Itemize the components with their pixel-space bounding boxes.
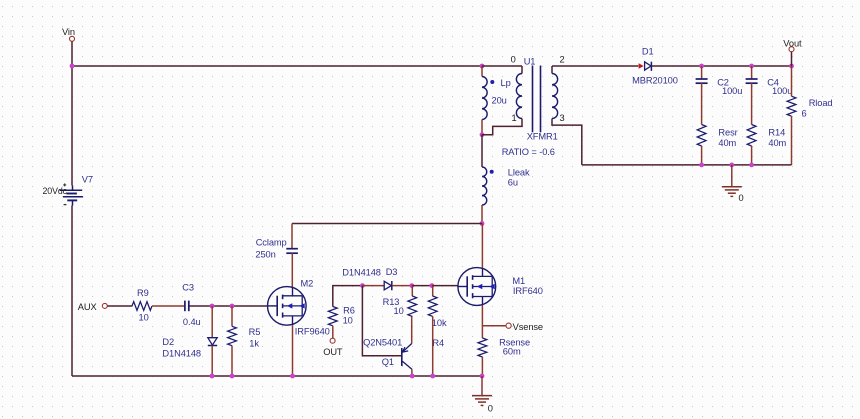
svg-text:6: 6 [802,109,807,119]
wire R13 bottom [411,316,413,343]
wire xfmr pin0 top [482,65,522,67]
capacitor C2 100u [696,78,708,80]
svg-text:D1N4148: D1N4148 [162,349,201,359]
svg-text:0: 0 [739,193,744,203]
wire top rail [72,65,482,67]
svg-text:V7: V7 [82,175,93,185]
svg-text:AUX: AUX [78,302,97,312]
wire R13 top [411,286,413,296]
svg-text:Vin: Vin [62,27,75,37]
svg-text:0: 0 [511,55,516,65]
svg-text:100u: 100u [722,86,742,96]
transformer core bars [532,66,534,133]
resistor R14 40m [747,125,756,147]
svg-text:Resr: Resr [718,127,737,137]
diode D1 MBR20100 [639,63,644,68]
junction top-left [70,64,75,69]
wire Lleak bottom lead [481,205,483,224]
wire R6 top [333,286,363,307]
resistor R6 10 [328,307,337,326]
wire Vin stub [71,42,73,67]
wire Resr bottom [701,146,703,165]
junction R4 node [430,283,435,288]
node AUX terminal [102,303,107,308]
svg-text:IRF9640: IRF9640 [295,326,330,336]
junction Q1 rail [410,374,415,379]
wire Vout stub [791,52,793,66]
wire Vsense branch [482,325,506,327]
svg-text:MBR20100: MBR20100 [632,76,678,86]
diode D3 D1N4148 [384,281,391,290]
junction R13 node [409,283,414,288]
capacitor Cclamp 250n [291,224,293,249]
junction Q1 base node [360,283,365,288]
junction R14 rail [749,163,754,168]
resistor R4 10k [428,296,437,316]
svg-text:D1N4148: D1N4148 [342,267,381,277]
resistor Rload 6 [787,96,796,116]
node Vout terminal [789,47,794,52]
svg-text:R4: R4 [432,338,444,348]
svg-text:U1: U1 [524,56,536,66]
resistor R13 10 [408,296,417,316]
junction Vout [789,64,794,69]
svg-text:Cclamp: Cclamp [256,238,287,248]
capacitor C4 100u [746,78,758,80]
svg-text:1: 1 [512,113,517,123]
svg-text:C3: C3 [182,282,194,292]
svg-text:Vsense: Vsense [513,322,543,332]
wire Rload bottom [791,116,793,165]
svg-text:M2: M2 [301,279,314,289]
svg-text:40m: 40m [718,138,736,148]
wire Q1 collector stub [411,369,413,376]
node Vin terminal [70,36,75,41]
junction C4 top [749,64,754,69]
wire AUX to R9 [108,305,133,307]
wire Lp top lead [481,66,483,77]
wire D2 top [211,306,213,338]
ground 0 output [731,165,733,187]
svg-text:100u: 100u [772,86,792,96]
capacitor C3 0.4u [184,301,186,312]
wire R4 bottom [432,316,434,376]
wire C2 top lead [701,66,703,79]
svg-text:D1: D1 [642,46,654,56]
voltage source V7 20Vdc [72,186,74,191]
svg-text:R9: R9 [137,288,149,298]
wire Lleak top lead [481,135,483,167]
wire Rsense bottom [481,357,483,376]
svg-text:6u: 6u [508,177,518,187]
junction R5 rail [230,374,235,379]
junction primary bottom [480,132,485,137]
junction ground rail [480,374,485,379]
svg-text:D3: D3 [386,267,398,277]
svg-text:M1: M1 [512,276,525,286]
svg-text:3: 3 [560,113,565,123]
node Vsense terminal [506,323,511,328]
svg-text:10k: 10k [432,318,447,328]
wire xfmr pin3 path [552,119,582,165]
svg-text:R6: R6 [343,305,355,315]
transformer secondary winding [552,74,558,119]
svg-text:OUT: OUT [323,347,343,357]
svg-text:R14: R14 [768,127,785,137]
svg-text:Rload: Rload [809,98,833,108]
diode D2 D1N4148 [208,338,217,345]
wire C4 to R14 [751,83,753,124]
wire M1 source [481,305,483,338]
wire C2 to Resr [701,83,703,124]
svg-text:XFMR1: XFMR1 [527,131,558,141]
wire Lp bottom lead [481,120,483,135]
wire R13-R4 [412,285,432,287]
resistor Resr 40m [697,125,706,147]
wire R4 top [432,286,434,296]
svg-text:250n: 250n [255,249,275,259]
transistor M1 IRF640 [458,268,496,306]
ground 0 left [481,376,483,396]
wire Cclamp to M2 drain [291,253,293,287]
wire R14 bottom [751,146,753,165]
wire clamp horizontal [292,223,482,225]
svg-text:IRF640: IRF640 [513,286,543,296]
svg-text:40m: 40m [768,138,786,148]
junction R4 rail [430,374,435,379]
svg-text:1k: 1k [249,339,259,349]
junction D2 node [210,304,215,309]
wire C4 top lead [751,66,753,79]
wire xfmr pin2 top [551,66,553,74]
svg-text:10: 10 [394,306,404,316]
wire Q1 base path [362,286,401,356]
wire M1 drain drop [481,224,483,268]
junction M2 source rail [290,374,295,379]
svg-text:20Vdc: 20Vdc [43,186,68,196]
wire R5 bottom [231,346,233,376]
svg-text:Vout: Vout [783,39,802,49]
svg-text:Q2N5401: Q2N5401 [363,338,402,348]
svg-text:0.4u: 0.4u [183,317,201,327]
wire C3 to gate [189,305,232,307]
wire D3 anode [362,285,384,287]
transformer U1 XFMR1 primary winding [516,74,522,119]
junction ground2 rail [729,163,734,168]
transistor Q1 Q2N5401 [401,348,403,366]
svg-text:2: 2 [560,55,565,65]
wire xfmr pin1 path [482,119,522,135]
svg-text:R5: R5 [249,327,261,337]
svg-text:0: 0 [488,404,493,414]
wire M2 source [292,325,294,376]
svg-text:Lp: Lp [501,78,511,88]
junction clamp node [480,221,485,226]
wire left drop upper [71,66,73,186]
wire D2 bottom [211,346,213,377]
junction Resr rail [699,163,704,168]
transistor M2 IRF9640 [268,287,307,326]
svg-text:20u: 20u [492,95,507,105]
wire M2 gate [232,305,268,307]
wire output bottom rail [582,164,792,166]
node OUT terminal [330,338,335,343]
svg-text:10: 10 [343,316,353,326]
svg-text:Lleak: Lleak [508,168,530,178]
resistor R5 1k [228,326,237,345]
wire R9 to C3 [152,305,184,307]
wire R5 top [231,306,233,326]
junction R5 node [230,304,235,309]
svg-text:10: 10 [139,312,149,322]
resistor R9 10 [132,302,152,311]
svg-text:Q1: Q1 [382,357,394,367]
svg-text:D2: D2 [162,337,174,347]
resistor Rsense 60m [478,338,487,357]
inductor Lleak 6u [482,167,487,205]
junction C2 top [699,64,704,69]
wire bottom rail [72,375,482,377]
wire D1 to output [651,65,791,67]
junction D2 rail [210,374,215,379]
svg-text:RATIO = -0.6: RATIO = -0.6 [502,147,555,157]
junction primary top [480,64,485,69]
wire Rload top [791,66,793,96]
inductor Lp 20u [482,77,487,120]
svg-text:60m: 60m [503,347,521,357]
wire M1 gate [432,285,458,287]
wire D3 cathode [392,285,412,287]
wire left drop lower [71,206,73,377]
wire R6 bottom [332,326,334,338]
